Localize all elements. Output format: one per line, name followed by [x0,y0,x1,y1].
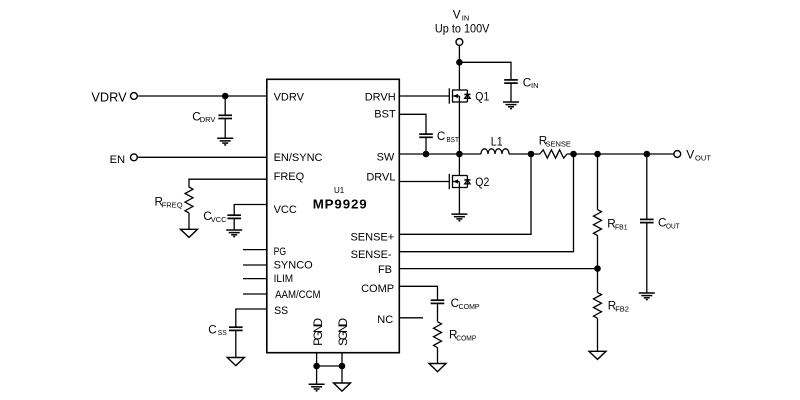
capacitor CDRV [218,115,232,118]
svg-text:NC: NC [377,314,393,326]
wire VIN down to node [458,45,460,62]
svg-text:COMP: COMP [456,333,476,342]
svg-text:V: V [453,9,461,22]
svg-text:IN: IN [462,13,470,22]
node SENSE- tap [570,151,577,158]
wire PGND-SGND tie [317,365,342,367]
svg-text:U1: U1 [334,186,345,195]
capacitor CBST [419,134,433,137]
wire Q2 source to ground [458,188,460,215]
wire COUT bottom lead [646,223,648,293]
svg-text:SGND: SGND [336,318,350,346]
node VIN junction [456,59,463,66]
terminal VDRV [131,93,138,100]
wire CIN bottom lead [510,83,512,102]
ground triangle below RFREQ [181,229,198,237]
wire SW pin to switch node [399,153,459,155]
wire L1 to RSENSE node [509,153,540,155]
pin stub SYNCO [243,264,267,266]
pin stub ILIM [243,278,267,280]
terminal EN [131,154,138,161]
wire SENSE- tap down and to pin [399,154,573,252]
node COUT tap [644,151,651,158]
svg-text:EN/SYNC: EN/SYNC [274,152,323,164]
svg-text:FB1: FB1 [615,223,628,232]
transistor Q2 [449,174,452,189]
wire CDRV top lead [224,96,226,115]
pin stub PG [243,249,267,251]
wire CBST bottom lead [425,137,427,154]
wire Q2 drain from SW node [458,154,460,176]
ground triangle below CSS [227,358,244,366]
wire RFB2 upper lead [597,269,599,293]
svg-text:SYNCO: SYNCO [274,260,314,272]
ground earth below CVCC [226,230,242,237]
wire COMP pin to CCOMP [399,286,437,300]
svg-text:SS: SS [218,328,227,337]
ground earth below COUT [639,293,655,300]
svg-text:VDRV: VDRV [274,92,305,104]
svg-text:IN: IN [531,81,539,90]
node SGND junction [339,363,346,370]
svg-text:SS: SS [274,305,288,317]
svg-text:C: C [208,323,216,336]
terminal VOUT [674,151,681,158]
wire VDRV terminal to IC pin VDRV [137,95,266,97]
inductor L1 [481,149,509,154]
svg-text:EN: EN [110,154,126,166]
svg-text:ILIM: ILIM [274,273,294,285]
wire Q1 source to SW node [458,102,460,154]
svg-text:VCC: VCC [211,215,227,224]
wire DRVH pin to Q1 gate [399,95,449,97]
ground triangle below SGND [334,383,351,391]
svg-text:SENSE: SENSE [546,140,571,149]
svg-text:PGND: PGND [311,318,325,346]
wire COUT upper lead [646,154,648,219]
svg-text:BST: BST [374,108,396,120]
resistor RSENSE [540,150,567,158]
node FB junction [594,265,601,272]
pin stub NC [399,317,423,319]
wire BST pin to CBST [399,114,426,134]
wire DRVL pin to Q2 gate [399,181,449,183]
ground triangle below RFB2 [589,351,606,359]
transistor Q1 [449,88,452,103]
svg-text:Q1: Q1 [475,91,489,103]
svg-text:VCC: VCC [274,204,297,216]
svg-text:FREQ: FREQ [162,201,183,210]
node SENSE+ tap [528,151,535,158]
wire RSENSE to VOUT [567,153,674,155]
wire CDRV bottom lead [224,119,226,139]
wire VCC pin to CVCC [234,205,267,216]
svg-text:SW: SW [377,151,395,163]
IC U1 MP9929 body [267,79,400,352]
svg-text:FREQ: FREQ [274,171,305,183]
wire RFREQ to ground [188,213,190,229]
resistor RFREQ [185,187,193,213]
svg-text:DRVL: DRVL [366,172,395,184]
svg-text:OUT: OUT [666,221,680,230]
wire RFB1 to FB node [597,236,599,269]
svg-text:COMP: COMP [361,283,394,295]
svg-text:Q2: Q2 [475,177,489,189]
resistor RCOMP [434,322,442,348]
svg-text:SENSE-: SENSE- [351,249,392,261]
capacitor COUT [640,219,654,222]
capacitor CCOMP [431,300,445,303]
svg-text:OUT: OUT [695,153,711,162]
wire CVCC bottom lead [233,218,235,230]
node SW switch junction [456,151,463,158]
node VDRV/CDRV junction [222,93,229,100]
wire VIN node to CIN [459,62,511,80]
ground earth below CIN [503,102,519,109]
svg-text:DRV: DRV [200,115,216,124]
wire PGND pin down [316,353,318,385]
wire SW node to L1 [459,153,481,155]
wire EN terminal to IC pin EN/SYNC [137,156,266,158]
svg-text:C: C [523,76,531,89]
capacitor CIN [504,80,518,83]
svg-text:V: V [686,148,694,162]
wire SENSE+ tap down and to pin [399,154,531,234]
wire RCOMP to ground [437,348,439,364]
pin stub AAM/CCM [243,293,267,295]
wire RFB1 upper lead [597,154,599,210]
svg-text:COMP: COMP [459,302,480,311]
resistor RFB2 [594,292,602,318]
capacitor CVCC [227,215,241,218]
resistor RFB1 [594,210,602,236]
node RFB1 tap [594,151,601,158]
wire Q1 drain from VIN node [458,62,460,90]
svg-text:PG: PG [274,246,287,258]
svg-text:VDRV: VDRV [91,90,127,105]
node PGND junction [313,363,320,370]
ground earth below CDRV [217,138,233,145]
ground triangle below RCOMP [429,364,446,372]
wire FB pin to FB node [399,268,597,270]
svg-text:DRVH: DRVH [365,92,396,104]
ground earth below Q2 [451,214,467,221]
svg-text:BST: BST [446,135,459,144]
terminal VIN [456,39,463,46]
svg-text:FB2: FB2 [615,305,629,314]
wire SS pin to CSS [236,309,267,327]
svg-text:Up to 100V: Up to 100V [435,24,490,36]
node CBST/SW junction [423,151,430,158]
svg-text:MP9929: MP9929 [313,197,367,212]
svg-text:SENSE+: SENSE+ [350,231,394,243]
svg-text:AAM/CCM: AAM/CCM [275,289,321,301]
wire CSS bottom lead [235,330,237,357]
capacitor CSS [229,327,243,330]
svg-text:L1: L1 [491,136,503,148]
svg-text:FB: FB [378,264,392,276]
wire SGND pin down [341,353,343,383]
wire RFB2 to ground [597,318,599,351]
wire CCOMP to RCOMP [437,303,439,321]
wire FREQ pin to RFREQ [189,179,267,187]
svg-text:C: C [437,130,445,143]
ground earth below PGND [309,384,325,391]
